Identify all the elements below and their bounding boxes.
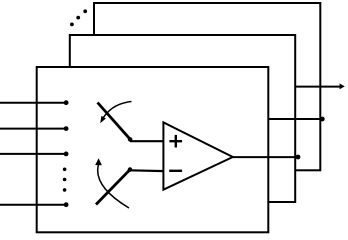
- op-amp output wire: [233, 156, 298, 158]
- input wire 2: [0, 128, 66, 130]
- switch S1 rotation arc: [102, 102, 132, 121]
- op-amp U1 triangle: [163, 122, 232, 189]
- wire S2 to op-amp - input: [130, 169, 164, 172]
- op-amp plus sign: [169, 135, 182, 148]
- node dot input 2: [64, 126, 69, 131]
- switch S1 arrowhead: [100, 116, 106, 123]
- switch S2 arrowhead: [95, 158, 102, 165]
- input ellipsis dots: [63, 168, 67, 192]
- node dot input 3: [64, 152, 69, 157]
- wire S1 to op-amp + input: [130, 140, 164, 142]
- input wire 4: [0, 204, 66, 206]
- output arrowhead: [340, 84, 345, 90]
- input wire 1: [0, 102, 66, 104]
- node dot input 4: [64, 202, 69, 207]
- switch S2 arm: [96, 170, 130, 205]
- node dot output on back card edge: [320, 117, 325, 122]
- switch S2 pivot dot: [128, 167, 133, 172]
- node dot output on middle card edge: [296, 155, 301, 160]
- back layer output wire: [295, 86, 340, 88]
- back card (layer N block): [94, 3, 320, 170]
- input wire 3: [0, 153, 66, 155]
- middle card (layer 2 block): [70, 35, 295, 202]
- middle layer output wire: [269, 118, 323, 120]
- front card (layer 1 block): [37, 67, 269, 232]
- switch S2 rotation arc: [98, 164, 129, 208]
- layer ellipsis dots (more cards): [70, 9, 87, 26]
- node dot input 1: [64, 100, 69, 105]
- op-amp minus sign: [169, 170, 182, 172]
- switch S1 pivot dot: [128, 137, 133, 142]
- switch S1 arm: [98, 103, 131, 140]
